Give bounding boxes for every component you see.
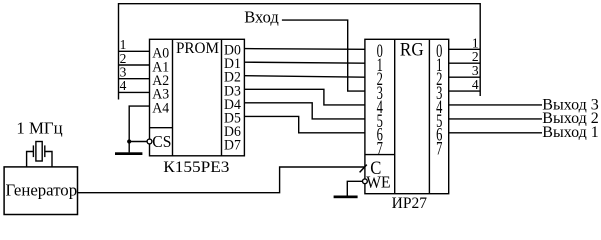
junction node A4/CS/ground [127, 139, 131, 143]
wire D3 to RG input 4 [244, 89, 365, 105]
ground symbol (RG WE) [334, 196, 358, 199]
svg-text:4: 4 [472, 77, 479, 92]
svg-text:Генератор: Генератор [5, 180, 77, 199]
generator G1 box [4, 167, 77, 215]
RG output pin numbers 0-7 [436, 42, 442, 159]
svg-text:7: 7 [436, 139, 442, 159]
wire bus pin 1 to A0 [119, 50, 150, 52]
wire bus pin 2 to A1 [119, 64, 150, 66]
wire Vhod to RG input 3 [282, 20, 365, 91]
wire D1 to RG input 1 [244, 62, 365, 63]
svg-text:D7: D7 [224, 137, 241, 154]
wire bus pin 3 to A2 [119, 78, 150, 80]
svg-text:RG: RG [400, 38, 424, 59]
IC U2 register RG IR27 box [365, 39, 449, 193]
wire feedback bus (top) [119, 4, 481, 100]
IC U1 PROM K155RE3 box [150, 39, 245, 156]
svg-text:ИР27: ИР27 [392, 195, 428, 212]
wire output Vyhod 1 [449, 132, 542, 134]
wire RG output 2 to bus pin 3 [449, 76, 481, 78]
wire generator to C input [78, 167, 365, 193]
crystal resonator ZQ1 1 MHz [27, 142, 52, 167]
wire RG output 3 to bus pin 4 [449, 90, 481, 92]
svg-text:К155РЕ3: К155РЕ3 [163, 158, 229, 176]
PROM data pin labels D0-D7 [224, 42, 241, 154]
ground symbol (PROM CS) [115, 152, 142, 155]
wire RG output 0 to bus pin 1 [449, 48, 481, 50]
wire D5 to RG input 6 [244, 116, 365, 132]
wire A4 to ground node [129, 106, 149, 141]
svg-text:Вход: Вход [244, 7, 279, 26]
svg-text:4: 4 [120, 78, 127, 93]
svg-text:CS: CS [152, 133, 171, 152]
svg-text:WE: WE [366, 172, 390, 192]
svg-text:1: 1 [472, 35, 479, 50]
RG input pin numbers 0-7 [377, 42, 383, 159]
svg-text:2: 2 [472, 49, 479, 64]
svg-text:1 МГц: 1 МГц [16, 118, 62, 137]
wire D0 to RG input 0 [244, 48, 365, 51]
wire D4 to RG input 5 [244, 103, 365, 119]
wire PROM ground riser [128, 142, 130, 153]
CS active-low bubble [147, 139, 152, 144]
wire WE to ground [347, 181, 362, 195]
wire bus pin 4 to A3 [119, 91, 150, 93]
svg-text:PROM: PROM [176, 40, 219, 57]
C dynamic input slash [360, 165, 367, 173]
wire RG output 1 to bus pin 2 [449, 62, 481, 64]
svg-text:3: 3 [472, 63, 479, 78]
PROM address pin labels A0-A4 [152, 45, 169, 116]
WE active-low bubble [363, 179, 368, 184]
wire output Vyhod 2 [449, 118, 542, 120]
wire output Vyhod 3 [449, 104, 542, 106]
svg-text:A4: A4 [152, 100, 169, 117]
wire D2 to RG input 2 [244, 76, 365, 77]
wire CS [129, 141, 147, 143]
svg-text:Выход 1: Выход 1 [542, 124, 599, 141]
